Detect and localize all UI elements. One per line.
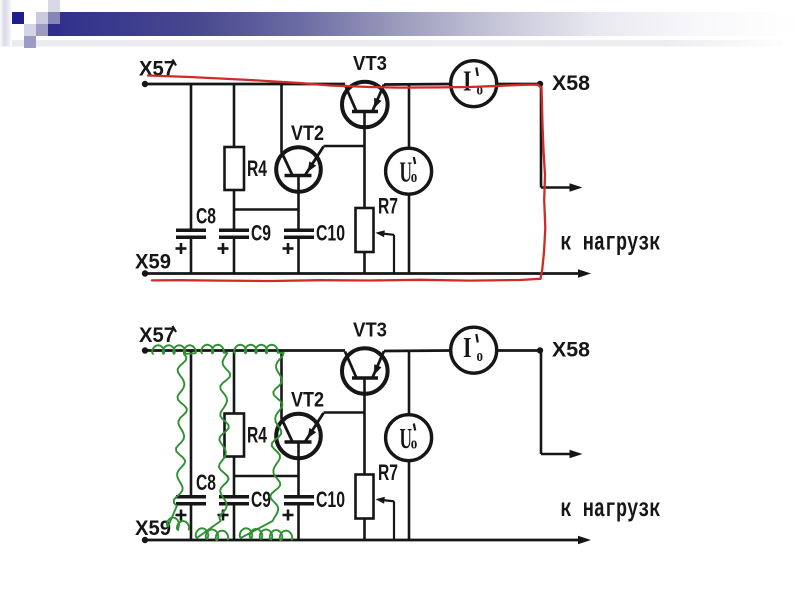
wire R4 upper lead (top circuit) [233,84,236,147]
svg-text:R7: R7 [378,460,398,485]
node XS9 terminal dot (top circuit) [142,270,148,276]
wire R7 lower lead (top circuit) [363,252,366,274]
svg-text:I: I [463,67,472,98]
wire VT2 base lead down to C10 (top circuit) [297,176,300,229]
svg-text:VT3: VT3 [353,53,387,75]
transistor VT3 emitter arrowhead (bottom circuit) [374,364,382,375]
svg-text:X59: X59 [135,251,171,274]
ammeter I'o circle (top circuit) [451,61,497,107]
transistor VT2 emitter line (bottom circuit) [306,413,324,441]
wire top rail I-meter to XS8 (top circuit) [496,83,540,86]
transistor VT2 circle (bottom circuit) [276,414,321,459]
wire U'o meter lower lead (bottom circuit) [408,461,411,541]
wire C10 lower lead (bottom circuit) [297,506,300,541]
capacitor C8 top plate (bottom circuit) [176,495,206,499]
transistor VT2 emitter arrowhead (top circuit) [308,161,317,172]
wire C8 lower lead (top circuit) [190,239,193,274]
decorative header: medium square a [48,12,60,24]
transistor VT3 collector line (top circuit) [345,85,357,112]
wire link R4-C9 node to VT2 base lead (top circuit) [234,208,299,211]
wire R7 wiper to bottom rail (bottom circuit) [393,501,395,540]
wire U'o meter upper lead (bottom circuit) [408,351,411,416]
transistor VT3 circle (bottom circuit) [342,348,388,394]
svg-text:o: o [477,80,484,99]
node XS7 terminal dot (top circuit) [142,81,148,87]
wire VT2 base lead down to C10 (bottom circuit) [297,442,300,495]
svg-text:X57: X57 [139,324,175,347]
node XS8 terminal dot (bottom circuit) [537,347,543,353]
wire R4 to C9 (bottom circuit) [233,457,236,496]
wire R7 lower lead (bottom circuit) [363,519,366,541]
svg-text:R4: R4 [247,156,268,181]
capacitor C9 bottom plate (bottom circuit) [219,502,249,506]
wire C9 lower lead (top circuit) [233,239,236,274]
svg-text:C10: C10 [316,487,345,512]
R7 wiper arrow (bottom circuit) [376,497,385,504]
ammeter I'o circle (bottom circuit) [451,327,497,373]
capacitor C9 polarity plus (bottom circuit) [218,514,229,517]
load arrow upper (bottom circuit) [541,453,573,455]
transistor VT2 base bar (top circuit) [285,174,312,177]
resistor R7 body (top circuit) [356,208,374,252]
capacitor C9 top plate (bottom circuit) [219,495,249,499]
bottom rail arrowhead to load (top circuit) [578,269,591,278]
transistor VT2 emitter line (top circuit) [306,147,324,175]
wire U'o meter lower lead (top circuit) [408,194,411,274]
capacitor C10 top plate (bottom circuit) [284,495,314,499]
decorative header: bar corner square [48,24,60,36]
capacitor C8 polarity plus (bottom circuit) [176,514,187,517]
capacitor C8 bottom plate (top circuit) [176,236,206,240]
transistor VT2 emitter arrowhead (bottom circuit) [308,428,317,439]
decorative header: light square a [36,12,48,24]
transistor VT3 emitter arrowhead (top circuit) [374,98,382,109]
svg-text:VT2: VT2 [291,122,324,145]
decorative header: main gradient bar [60,12,800,36]
capacitor C10 bottom plate (top circuit) [284,236,314,240]
capacitor C9 bottom plate (top circuit) [219,236,249,240]
load arrow upper (top circuit) [541,186,573,188]
green scribble 3 over C10 branch (bottom circuit) [234,345,292,541]
wire R4 upper lead (bottom circuit) [233,351,236,414]
decorative header: medium square b [36,24,48,36]
red freehand annotation loop around top circuit [148,76,545,282]
capacitor C10 bottom plate (bottom circuit) [284,502,314,506]
decorative header: light square c [24,24,36,36]
wire XS8 vertical to load arrow (top circuit) [540,84,543,188]
transistor VT3 base bar (top circuit) [352,110,378,113]
svg-text:R7: R7 [378,194,398,219]
capacitor C9 top plate (top circuit) [219,229,249,233]
R7 wiper arrow (top circuit) [376,230,385,237]
capacitor C10 polarity plus (bottom circuit) [283,514,294,517]
node XS8 terminal dot (top circuit) [537,81,543,87]
wire top rail I-meter to XS8 (bottom circuit) [496,349,540,352]
wire VT3 base lead down to R7 (bottom circuit) [363,378,366,475]
decorative header: faint gray band [0,40,782,47]
svg-text:o: o [411,434,418,453]
svg-text:o: o [411,167,418,186]
voltmeter U'o circle (top circuit) [386,148,432,194]
green scribble 1 over C8 branch (bottom circuit) [152,345,196,530]
svg-text:X58: X58 [552,339,590,362]
transistor VT3 emitter line (top circuit) [373,85,385,112]
wire bottom rail (top circuit) [145,272,580,275]
wire C9 lower lead (bottom circuit) [233,506,236,541]
green scribble 2 over R4/C9 branch (bottom circuit) [196,345,231,541]
svg-text:VT3: VT3 [353,320,387,342]
wire VT3 base lead down to R7 (top circuit) [363,112,366,209]
svg-text:C8: C8 [196,204,216,229]
node XS9 terminal dot (bottom circuit) [142,537,148,543]
svg-text:C10: C10 [316,221,345,246]
wire top rail left segment XS7 to VT3 (top circuit) [145,83,345,86]
capacitor C10 top plate (top circuit) [284,229,314,233]
bottom rail arrowhead to load (bottom circuit) [578,536,591,544]
transistor VT2 circle (top circuit) [276,147,321,192]
wire R7 wiper to bottom rail (top circuit) [393,235,395,274]
transistor VT3 collector line (bottom circuit) [345,352,357,379]
transistor VT3 base bar (bottom circuit) [352,376,378,379]
wire C10 lower lead (top circuit) [297,239,300,274]
svg-text:к нагрузк: к нагрузк [561,228,661,258]
decorative header: dark navy square [12,12,24,24]
svg-text:I: I [463,333,472,364]
svg-text:X58: X58 [552,72,590,95]
svg-text:C9: C9 [251,221,271,246]
capacitor C8 bottom plate (bottom circuit) [176,502,206,506]
svg-text:R4: R4 [247,423,268,448]
svg-text:C8: C8 [196,470,216,495]
svg-text:к нагрузк: к нагрузк [561,494,661,524]
decorative header: left gradient strip [0,0,12,46]
wire C8 upper lead (bottom circuit) [190,351,193,496]
svg-text:o: o [477,346,484,365]
wire top rail VT3 to I-meter (bottom circuit) [384,349,452,352]
resistor R7 body (bottom circuit) [356,475,374,519]
capacitor C9 polarity plus (top circuit) [218,247,229,250]
wire XS8 vertical to load arrow (bottom circuit) [540,351,543,455]
resistor R4 body (bottom circuit) [225,414,245,457]
wire VT2 collector lead from rail (bottom circuit) [280,351,283,420]
capacitor C8 top plate (top circuit) [176,229,206,233]
wire VT2 emitter to VT3 base (top circuit) [324,145,365,148]
capacitor C8 polarity plus (top circuit) [176,247,187,250]
svg-text:VT2: VT2 [291,389,324,412]
wire bottom rail (bottom circuit) [145,539,580,542]
wire U'o meter upper lead (top circuit) [408,84,411,149]
wire top rail left segment XS7 to VT3 (bottom circuit) [145,349,345,352]
svg-text:C9: C9 [251,487,271,512]
wire top rail VT3 to I-meter (top circuit) [384,83,452,86]
wire VT2 emitter to VT3 base (bottom circuit) [324,411,365,414]
svg-text:X59: X59 [135,517,171,540]
transistor VT3 emitter line (bottom circuit) [373,351,385,378]
voltmeter U'o circle (bottom circuit) [386,415,432,461]
node XS7 terminal dot (bottom circuit) [142,347,148,353]
wire C8 lower lead (bottom circuit) [190,506,193,541]
wire link R4-C9 node to VT2 base lead (bottom circuit) [234,475,299,478]
transistor VT2 collector line (top circuit) [282,152,293,176]
transistor VT2 collector line (bottom circuit) [282,419,293,443]
decorative header: medium square c [24,36,36,48]
resistor R4 body (top circuit) [225,147,245,190]
decorative header: light square b [48,0,60,12]
wire C8 upper lead (top circuit) [190,84,193,229]
wire VT2 collector lead from rail (top circuit) [280,84,283,153]
transistor VT2 base bar (bottom circuit) [285,440,312,443]
capacitor C10 polarity plus (top circuit) [283,247,294,250]
wire R4 to C9 (top circuit) [233,190,236,229]
transistor VT3 circle (top circuit) [342,82,388,128]
